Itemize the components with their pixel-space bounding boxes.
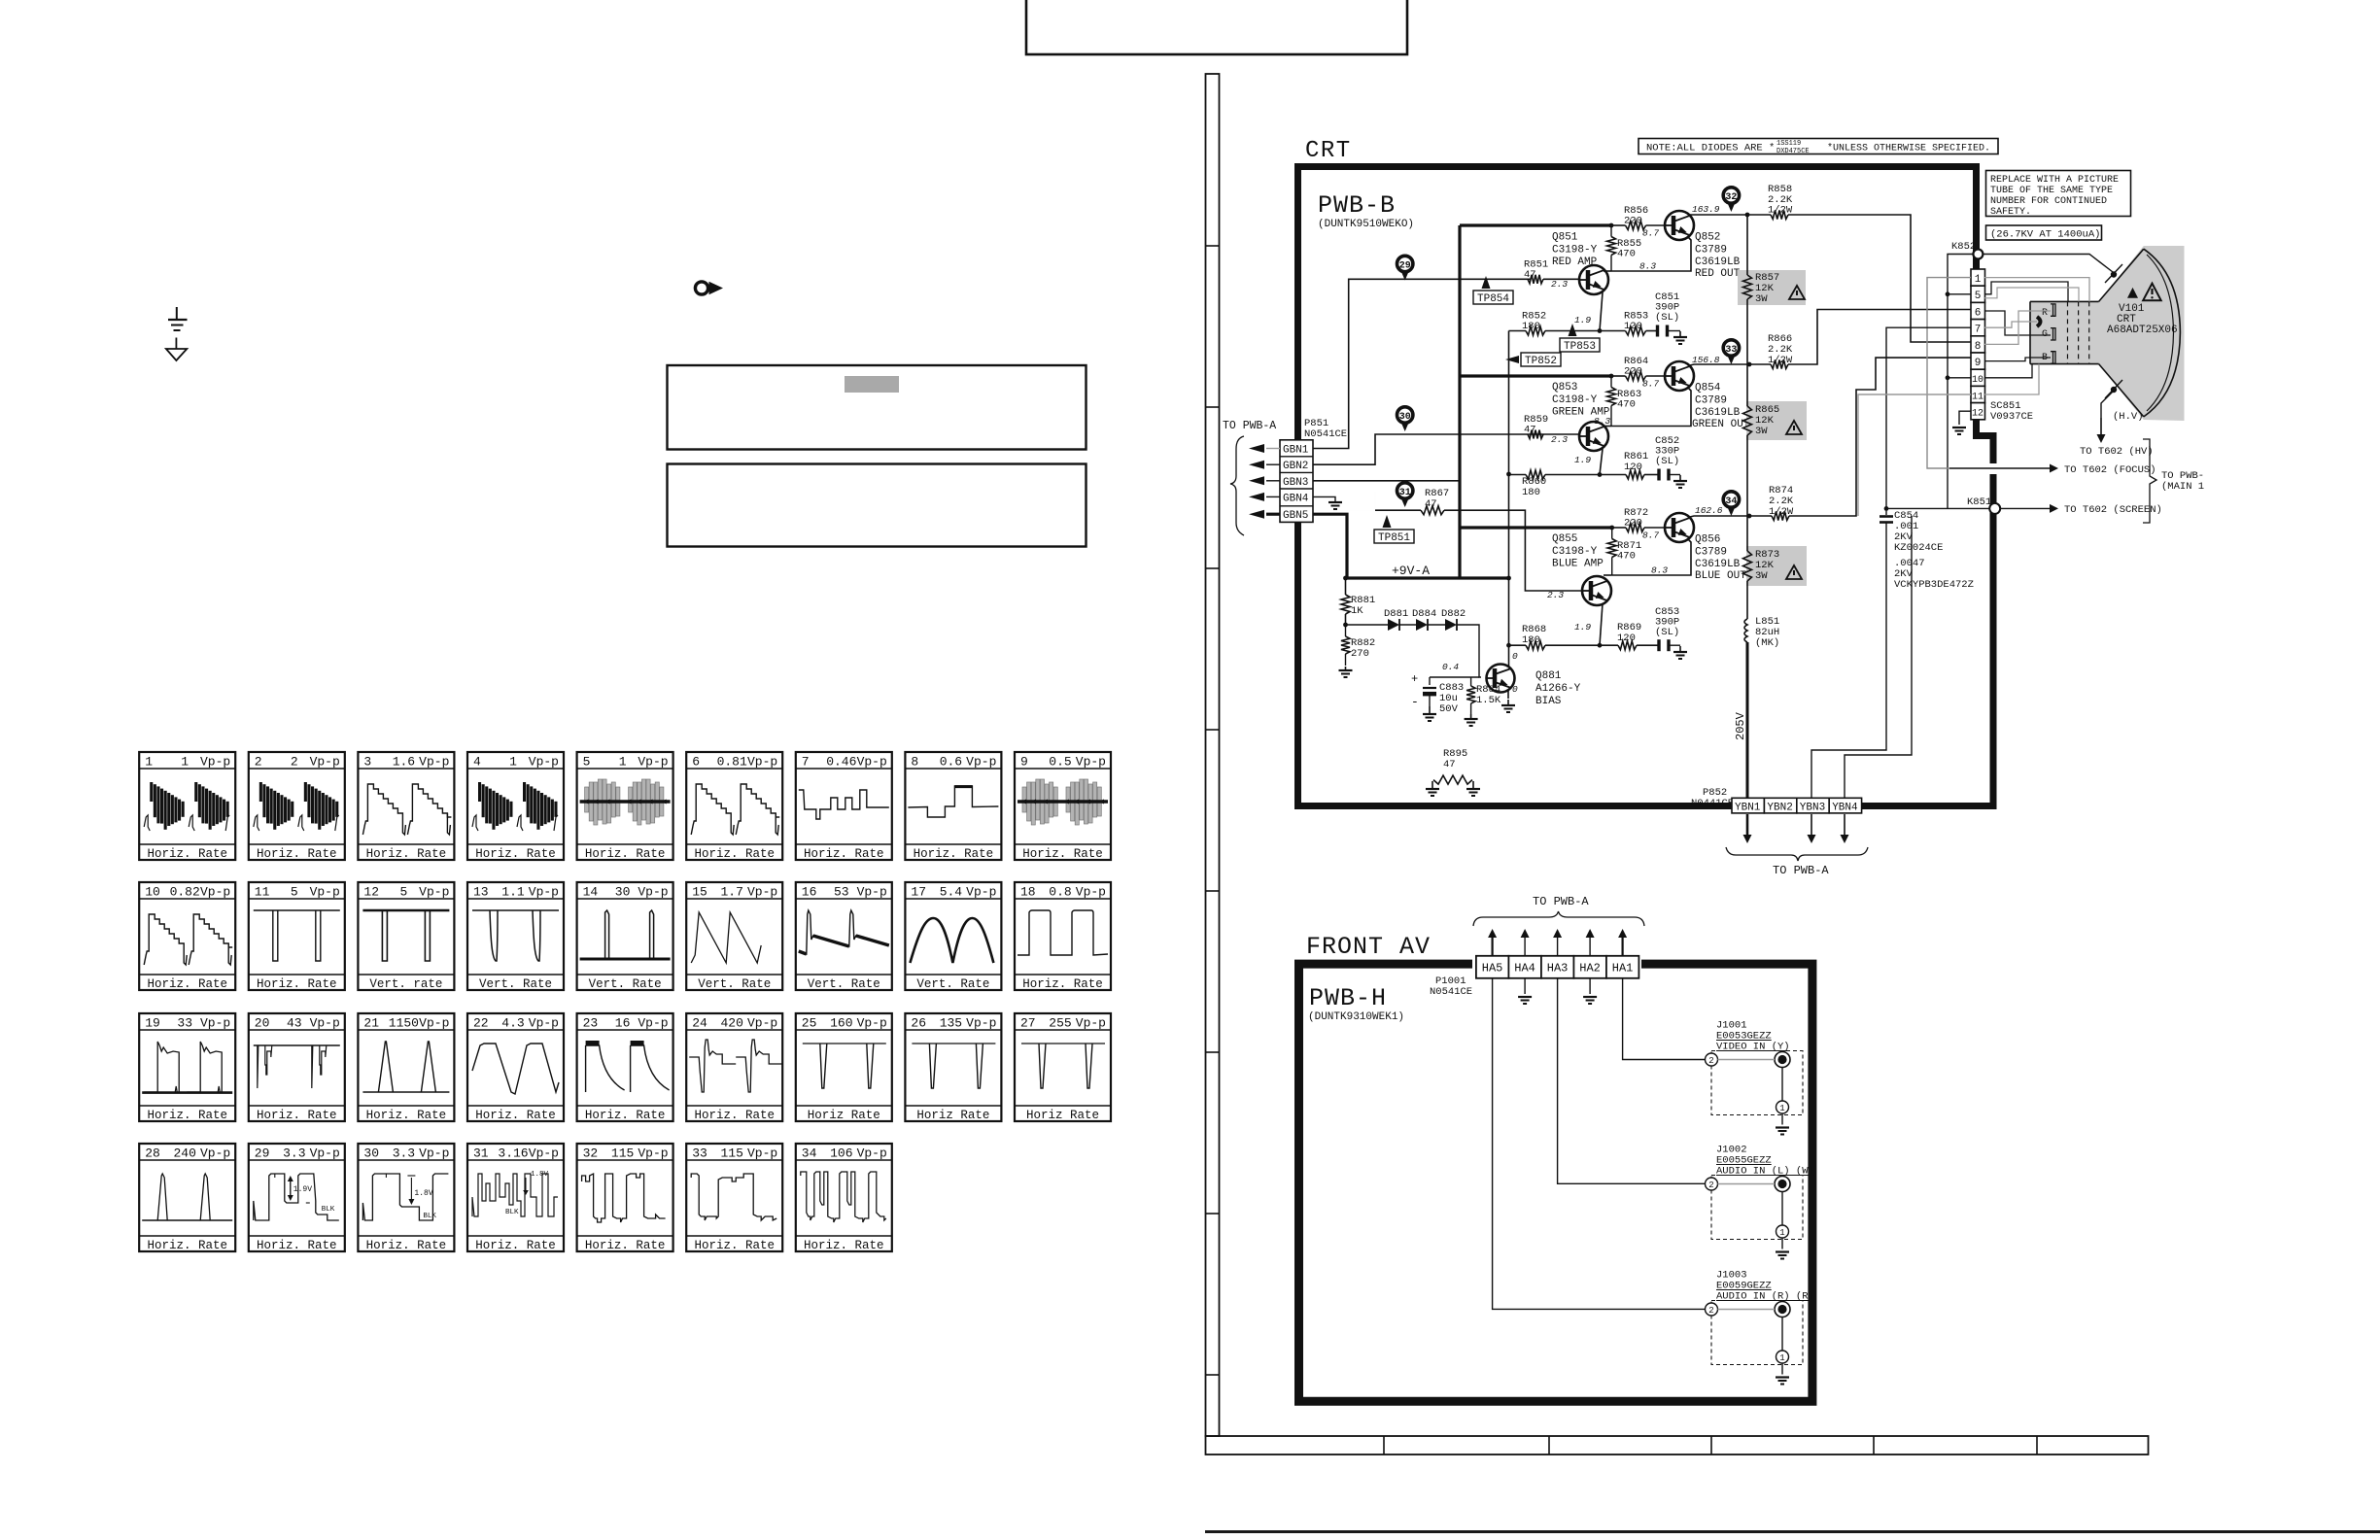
waveform 16 (53 Vp-p) — [796, 882, 892, 990]
wire GBN4 to PWB-A arrow — [1266, 496, 1280, 497]
junction dot R863 top — [1609, 374, 1614, 379]
svg-text:2.3: 2.3 — [1547, 590, 1564, 600]
svg-text:Q853: Q853 — [1552, 382, 1577, 394]
waveform 25 (160 Vp-p) — [796, 1013, 892, 1121]
svg-text:Vp-p: Vp-p — [529, 1146, 559, 1161]
svg-text:21: 21 — [363, 1016, 379, 1031]
svg-text:1/2W: 1/2W — [1769, 506, 1794, 518]
fold strip divider — [1206, 406, 1220, 408]
earth ground symbol (legend) — [176, 307, 178, 320]
svg-text:32: 32 — [583, 1146, 599, 1161]
connector HA5-HA1 — [1476, 956, 1509, 978]
wire K851 screen line — [1886, 507, 1989, 509]
diode D882 — [1428, 624, 1445, 626]
svg-text:5: 5 — [399, 885, 407, 900]
fold strip divider — [1710, 1436, 1712, 1454]
svg-text:Vert. Rate: Vert. Rate — [698, 977, 771, 991]
svg-text:1.7: 1.7 — [720, 885, 742, 900]
svg-text:3W: 3W — [1755, 426, 1768, 437]
waveform 28 (240 Vp-p) — [139, 1144, 235, 1251]
svg-text:11: 11 — [1972, 392, 1983, 402]
wire green feed line — [1460, 374, 1611, 377]
note box 1 (empty) — [668, 365, 1087, 450]
svg-text:Vp-p: Vp-p — [419, 1146, 449, 1161]
svg-text:Horiz. Rate: Horiz. Rate — [585, 1109, 666, 1122]
bottom border line — [1205, 1530, 2380, 1533]
svg-text:0.6: 0.6 — [940, 755, 962, 770]
svg-text:6: 6 — [692, 755, 700, 770]
wire YBN3 riser — [1811, 572, 1886, 798]
svg-text:Vp-p: Vp-p — [747, 755, 777, 770]
svg-text:24: 24 — [692, 1016, 707, 1031]
wire K852 to anode — [1983, 255, 2113, 273]
svg-text:KZ0024CE: KZ0024CE — [1894, 542, 1943, 554]
svg-text:12: 12 — [1972, 409, 1983, 420]
warning filled triangle (CRT) — [2127, 288, 2138, 298]
junction dot — [1506, 472, 1511, 477]
junction dot pin10 line — [1946, 375, 1950, 380]
svg-text:Horiz. Rate: Horiz. Rate — [147, 1109, 227, 1122]
svg-text:0.46: 0.46 — [826, 755, 856, 770]
resistor R865 12K 3W — [1743, 406, 1752, 435]
svg-text:(DUNTK9310WEK1): (DUNTK9310WEK1) — [1308, 1011, 1404, 1023]
svg-text:K851: K851 — [1967, 496, 1991, 508]
svg-text:Q852: Q852 — [1695, 232, 1720, 244]
waveform 27 (255 Vp-p) — [1015, 1013, 1111, 1121]
wire red emitter node — [1611, 236, 1691, 271]
svg-text:C3619LB: C3619LB — [1695, 407, 1741, 419]
svg-text:2: 2 — [1708, 1181, 1713, 1190]
resistor R852 — [1526, 326, 1545, 335]
svg-text:47: 47 — [1524, 269, 1536, 281]
svg-text:9: 9 — [1975, 358, 1982, 369]
resistor R856 — [1626, 222, 1646, 230]
jack J1002 AUDIO IN (L) — [1711, 1176, 1803, 1240]
svg-text:470: 470 — [1617, 249, 1636, 260]
fold strip divider — [2036, 1436, 2038, 1454]
svg-text:Vp-p: Vp-p — [966, 885, 996, 900]
warning triangle with exclamation (CRT) — [2143, 284, 2161, 301]
wire Q853 emitter — [1600, 449, 1603, 475]
svg-text:0.5: 0.5 — [1049, 755, 1071, 770]
svg-text:Vp-p: Vp-p — [638, 755, 668, 770]
svg-text:12: 12 — [363, 885, 379, 900]
box 26.7KV AT 1400uA — [1986, 225, 2102, 240]
svg-text:HA2: HA2 — [1579, 962, 1601, 975]
svg-text:3.16: 3.16 — [498, 1146, 528, 1161]
svg-text:1K: 1K — [1351, 605, 1363, 617]
waveform 2 (2 Vp-p) — [249, 752, 345, 860]
arrow YBN3 down — [1811, 814, 1812, 835]
svg-text:Horiz. Rate: Horiz. Rate — [694, 847, 775, 861]
svg-text:GREEN OUT: GREEN OUT — [1692, 419, 1750, 430]
svg-text:C3198-Y: C3198-Y — [1552, 394, 1598, 406]
svg-text:47: 47 — [1425, 498, 1437, 510]
svg-text:(SL): (SL) — [1655, 627, 1679, 638]
svg-text:Horiz. Rate: Horiz. Rate — [257, 847, 337, 861]
ground left of R895 — [1431, 781, 1433, 789]
svg-text:NOTE:ALL DIODES ARE *: NOTE:ALL DIODES ARE * — [1646, 143, 1775, 154]
arrow YBN1 down — [1746, 814, 1749, 835]
svg-text:30: 30 — [363, 1146, 379, 1161]
waveform 17 (5.4 Vp-p) — [905, 882, 1001, 990]
svg-text:FRONT AV: FRONT AV — [1306, 933, 1431, 961]
svg-text:115: 115 — [611, 1146, 634, 1161]
svg-text:30: 30 — [1399, 412, 1411, 423]
pin strip K852 pins — [1971, 269, 1985, 286]
svg-text:Horiz. Rate: Horiz. Rate — [585, 847, 666, 861]
svg-text:180: 180 — [1522, 634, 1540, 646]
svg-text:33: 33 — [1725, 345, 1737, 356]
wire GBN4 to ground — [1313, 496, 1335, 502]
warning triangle R873 — [1786, 565, 1802, 579]
title block box (top) — [1026, 0, 1407, 54]
CRT neck left edge — [2029, 301, 2031, 363]
ground below C883 — [1429, 706, 1431, 714]
capacitor C852 330P (SL) — [1657, 469, 1660, 481]
brace TO PWB-A (front av) — [1473, 911, 1644, 926]
wire HA3 to J1002 — [1558, 978, 1706, 1184]
svg-text:Vp-p: Vp-p — [200, 885, 230, 900]
svg-text:470: 470 — [1617, 399, 1636, 411]
svg-text:(H.V): (H.V) — [2113, 411, 2144, 423]
svg-text:1.9V: 1.9V — [293, 1185, 312, 1194]
svg-text:1: 1 — [1779, 1104, 1784, 1113]
svg-text:CRT: CRT — [1305, 138, 1352, 164]
balloon 33 — [1723, 340, 1739, 356]
waveform 22 (4.3 Vp-p) — [467, 1013, 564, 1121]
svg-text:BLUE AMP: BLUE AMP — [1552, 559, 1604, 570]
transistor Q856 (C3789 BLUE OUT) — [1665, 513, 1694, 542]
resistor R882 270 — [1341, 636, 1350, 654]
svg-text:115: 115 — [720, 1146, 742, 1161]
waveform 26 (135 Vp-p) — [905, 1013, 1001, 1121]
svg-text:180: 180 — [1522, 321, 1540, 332]
svg-text:C3198-Y: C3198-Y — [1552, 546, 1598, 558]
svg-text:C3619LB: C3619LB — [1695, 257, 1741, 268]
svg-text:2: 2 — [291, 755, 298, 770]
svg-text:47: 47 — [1524, 425, 1536, 436]
svg-text:11: 11 — [255, 885, 270, 900]
junction dot — [1506, 576, 1511, 581]
transistor Q852 (C3789 RED OUT) — [1665, 211, 1694, 240]
svg-text:D881: D881 — [1384, 608, 1408, 620]
svg-text:Vp-p: Vp-p — [747, 1016, 777, 1031]
svg-text:29: 29 — [255, 1146, 270, 1161]
junction dot pin5 line — [1946, 291, 1950, 296]
wire GBN2 to PWB-A arrow — [1266, 463, 1280, 465]
svg-text:30: 30 — [615, 885, 631, 900]
svg-text:7: 7 — [1975, 325, 1982, 336]
svg-text:TP851: TP851 — [1378, 532, 1410, 544]
svg-text:20: 20 — [255, 1016, 270, 1031]
svg-text:Horiz Rate: Horiz Rate — [916, 1109, 989, 1122]
ground below R884 — [1470, 714, 1472, 719]
junction dot blue collector — [1747, 514, 1752, 519]
svg-text:TO T602 (FOCUS): TO T602 (FOCUS) — [2064, 464, 2156, 476]
transistor Q855 (C3198-Y BLUE AMP) — [1582, 576, 1611, 605]
waveform 7 (0.46 Vp-p) — [796, 752, 892, 860]
svg-text:8: 8 — [1975, 341, 1982, 353]
arrow HV down — [2100, 418, 2102, 434]
svg-text:Vp-p: Vp-p — [200, 755, 230, 770]
svg-text:(SL): (SL) — [1655, 456, 1679, 467]
svg-text:1.9: 1.9 — [1574, 315, 1591, 325]
pin GBN4 — [1280, 488, 1313, 490]
svg-text:SAFETY.: SAFETY. — [1990, 207, 2031, 218]
svg-text:TP854: TP854 — [1477, 293, 1509, 305]
svg-text:28: 28 — [145, 1146, 160, 1161]
svg-text:Vp-p: Vp-p — [857, 1146, 887, 1161]
svg-text:220: 220 — [1624, 366, 1642, 378]
resistor R869 — [1618, 641, 1637, 650]
svg-text:240: 240 — [173, 1146, 195, 1161]
vertical fold strip — [1206, 74, 1220, 1436]
waveform 18 (0.8 Vp-p) — [1015, 882, 1111, 990]
wire C883 top to base wire — [1430, 676, 1479, 678]
svg-text:RED OUT: RED OUT — [1695, 268, 1741, 280]
fold strip divider — [1206, 1051, 1220, 1053]
svg-text:Horiz. Rate: Horiz. Rate — [147, 977, 227, 991]
wire K852 branch down — [1948, 255, 1973, 509]
brace TO PWB-(MAIN) — [2143, 439, 2156, 523]
svg-text:Vp-p: Vp-p — [310, 1016, 340, 1031]
wire +9V-A bus — [1347, 576, 1509, 579]
PWB-B right border jog piece — [1977, 420, 1994, 463]
waveform 12 (5 Vp-p) — [358, 882, 454, 990]
resistor R857 12K 3W — [1743, 275, 1752, 299]
svg-text:1: 1 — [1779, 1228, 1784, 1238]
svg-text:C3789: C3789 — [1695, 395, 1727, 407]
junction dot R871 top — [1609, 526, 1614, 530]
svg-text:7: 7 — [802, 755, 810, 770]
wire blue collector to pin9 — [1690, 516, 1772, 517]
svg-text:Q851: Q851 — [1552, 232, 1578, 244]
resistor R874 — [1772, 512, 1789, 521]
svg-text:Vert. rate: Vert. rate — [369, 977, 442, 991]
svg-text:YBN1: YBN1 — [1735, 803, 1761, 814]
wire Q881 collector — [1508, 645, 1510, 667]
svg-text:+: + — [1411, 672, 1418, 686]
fold strip divider — [1873, 1436, 1875, 1454]
transistor Q854 (C3789 GREEN OUT) — [1665, 361, 1694, 391]
svg-text:10: 10 — [1972, 375, 1983, 386]
svg-text:Vp-p: Vp-p — [419, 755, 449, 770]
capacitor C851 390P (SL) — [1656, 325, 1659, 337]
wire pin1 (gray) to focus loop — [1927, 278, 1971, 468]
svg-text:Vert. Rate: Vert. Rate — [479, 977, 552, 991]
svg-text:Horiz. Rate: Horiz. Rate — [257, 1109, 337, 1122]
svg-text:8.7: 8.7 — [1642, 228, 1659, 239]
wire pin10 to K852 line — [1948, 377, 1971, 379]
waveform 9 (0.5 Vp-p) — [1015, 752, 1111, 860]
test point TP851 — [1374, 530, 1414, 543]
anode contact dot — [2111, 271, 2117, 277]
CRT funnel inner arc — [2147, 255, 2174, 411]
svg-text:HA4: HA4 — [1514, 962, 1535, 975]
waveform 14 (30 Vp-p) — [577, 882, 673, 990]
waveform 15 (1.7 Vp-p) — [686, 882, 782, 990]
svg-text:120: 120 — [1617, 633, 1636, 644]
svg-text:TUBE OF THE SAME TYPE: TUBE OF THE SAME TYPE — [1990, 186, 2113, 196]
svg-text:160: 160 — [830, 1016, 852, 1031]
resistor R873 12K 3W — [1743, 551, 1752, 581]
junction dot diode node — [1343, 623, 1348, 628]
svg-text:1.1: 1.1 — [501, 885, 525, 900]
svg-text:C3789: C3789 — [1695, 245, 1727, 257]
svg-text:15: 15 — [692, 885, 707, 900]
svg-text:Q881: Q881 — [1535, 670, 1562, 682]
svg-text:163.9: 163.9 — [1692, 204, 1720, 215]
wire GBN5 (thick) to +9V-A corner — [1313, 514, 1347, 578]
waveform 4 (1 Vp-p) — [467, 752, 564, 860]
svg-text:1: 1 — [1975, 274, 1982, 286]
fold strip divider — [1206, 890, 1220, 892]
svg-text:1/2W: 1/2W — [1768, 355, 1793, 366]
arrow TO T602 SCREEN — [2000, 507, 2050, 509]
transistor Q853 (C3198-Y GREEN AMP) — [1579, 422, 1608, 451]
brace TO PWB-A bottom — [1726, 847, 1868, 861]
pin GBN2 — [1280, 456, 1313, 458]
svg-text:Vp-p: Vp-p — [1076, 1016, 1106, 1031]
note box: all diodes — [1638, 139, 1998, 154]
wire green base line — [1527, 433, 1579, 435]
svg-text:N0541CE: N0541CE — [1304, 428, 1347, 440]
svg-text:D884: D884 — [1412, 608, 1436, 620]
svg-text:2: 2 — [1708, 1056, 1713, 1066]
fold strip divider — [1206, 567, 1220, 569]
transistor Q851 (C3198-Y RED AMP) — [1543, 278, 1579, 280]
balloon 34 — [1723, 492, 1739, 507]
svg-text:1.5K: 1.5K — [1476, 695, 1501, 706]
svg-text:1.9: 1.9 — [1574, 455, 1591, 465]
svg-text:Vp-p: Vp-p — [747, 1146, 777, 1161]
adjustment point icon (circle with arrow) — [695, 282, 707, 294]
resistor R863 (feedback) — [1607, 388, 1616, 406]
heater symbol — [2037, 317, 2041, 326]
wire HA5 to J1003 — [1493, 978, 1706, 1310]
svg-text:1/2W: 1/2W — [1768, 205, 1793, 217]
svg-text:Vp-p: Vp-p — [1076, 755, 1106, 770]
svg-text:Horiz. Rate: Horiz. Rate — [475, 1109, 556, 1122]
svg-text:22: 22 — [473, 1016, 489, 1031]
svg-text:REPLACE WITH A PICTURE: REPLACE WITH A PICTURE — [1990, 175, 2119, 186]
svg-text:0.82: 0.82 — [170, 885, 200, 900]
svg-text:Horiz Rate: Horiz Rate — [1026, 1109, 1099, 1122]
svg-text:HA5: HA5 — [1482, 962, 1503, 975]
svg-text:43: 43 — [287, 1016, 302, 1031]
svg-text:Horiz. Rate: Horiz. Rate — [694, 1239, 775, 1252]
waveform 23 (16 Vp-p) — [577, 1013, 673, 1121]
fold strip divider — [1206, 1374, 1220, 1376]
junction dot Q851 emitter — [1598, 328, 1603, 333]
waveform 8 (0.6 Vp-p) — [905, 752, 1001, 860]
svg-text:YBN3: YBN3 — [1800, 803, 1825, 814]
diode D884 — [1399, 624, 1416, 626]
svg-text:120: 120 — [1624, 321, 1642, 332]
svg-text:Vp-p: Vp-p — [310, 885, 340, 900]
gray highlight mark — [845, 376, 899, 393]
svg-text:A68ADT25X06: A68ADT25X06 — [2107, 325, 2178, 336]
waveform 21 (1150 Vp-p) — [358, 1013, 454, 1121]
ground after C852 — [1668, 474, 1680, 476]
svg-text:YBN2: YBN2 — [1767, 803, 1792, 814]
svg-text:Horiz. Rate: Horiz. Rate — [914, 847, 994, 861]
svg-text:Horiz. Rate: Horiz. Rate — [475, 847, 556, 861]
wire GBN3 to bus — [1313, 480, 1460, 482]
svg-text:GBN5: GBN5 — [1283, 510, 1308, 522]
resistor R872 — [1626, 524, 1644, 532]
test point TP854 — [1473, 291, 1513, 304]
resistor R858 — [1771, 211, 1788, 220]
svg-text:180: 180 — [1522, 487, 1540, 498]
svg-text:33: 33 — [177, 1016, 192, 1031]
svg-text:(SL): (SL) — [1655, 312, 1679, 324]
svg-text:Horiz. Rate: Horiz. Rate — [366, 1239, 447, 1252]
waveform 24 (420 Vp-p) — [686, 1013, 782, 1121]
svg-text:32: 32 — [1725, 192, 1737, 203]
svg-text:3: 3 — [363, 755, 371, 770]
wire green emitter line — [1509, 474, 1527, 476]
svg-text:Vp-p: Vp-p — [419, 1016, 449, 1031]
junction dot Q853 emitter — [1598, 472, 1603, 477]
waveform 20 (43 Vp-p) — [249, 1013, 345, 1121]
wire 205V rail — [1746, 215, 1748, 275]
CRT funnel body (gray) — [2030, 246, 2185, 421]
svg-text:Vert. Rate: Vert. Rate — [808, 977, 880, 991]
svg-text:NUMBER FOR CONTINUED: NUMBER FOR CONTINUED — [1990, 196, 2107, 207]
svg-text:C3198-Y: C3198-Y — [1552, 245, 1598, 257]
svg-text:Vp-p: Vp-p — [310, 755, 340, 770]
svg-text:Vp-p: Vp-p — [529, 1016, 559, 1031]
svg-text:6: 6 — [1975, 307, 1982, 319]
junction dot R855 top — [1609, 223, 1614, 228]
box REPLACE WITH A PICTURE TUBE — [1986, 171, 2131, 217]
svg-text:1.8V: 1.8V — [531, 1171, 549, 1179]
svg-text:0.8: 0.8 — [1049, 885, 1071, 900]
svg-text:Horiz. Rate: Horiz. Rate — [694, 1109, 775, 1122]
svg-text:25: 25 — [802, 1016, 817, 1031]
svg-text:(26.7KV AT 1400uA): (26.7KV AT 1400uA) — [1990, 229, 2100, 241]
svg-text:31: 31 — [473, 1146, 489, 1161]
svg-text:GBN4: GBN4 — [1283, 493, 1309, 504]
wire Q851 emitter — [1600, 292, 1603, 331]
resistor R860 — [1526, 470, 1545, 479]
svg-text:13: 13 — [473, 885, 489, 900]
svg-text:4.3: 4.3 — [501, 1016, 524, 1031]
wire GBN1 to PWB-A arrow — [1266, 448, 1280, 450]
arrows HA to PWB-A — [1491, 938, 1493, 956]
svg-text:DXD475CE: DXD475CE — [1776, 148, 1810, 155]
svg-text:V0937CE: V0937CE — [1990, 411, 2033, 423]
svg-text:+9V-A: +9V-A — [1392, 564, 1430, 578]
svg-text:135: 135 — [940, 1016, 962, 1031]
svg-text:Horiz. Rate: Horiz. Rate — [366, 847, 447, 861]
svg-text:C3789: C3789 — [1695, 547, 1727, 559]
svg-text:120: 120 — [1624, 462, 1642, 473]
resistor R884 1.5K — [1466, 686, 1475, 703]
svg-text:1150: 1150 — [389, 1016, 419, 1031]
waveform 6 (0.81 Vp-p) — [686, 752, 782, 860]
svg-text:9: 9 — [1020, 755, 1028, 770]
svg-text:Horiz. Rate: Horiz. Rate — [475, 1239, 556, 1252]
svg-text:Vp-p: Vp-p — [857, 755, 887, 770]
wire blue emitter line — [1509, 644, 1527, 646]
svg-text:3W: 3W — [1755, 570, 1768, 582]
svg-text:-: - — [1411, 695, 1419, 709]
svg-text:8: 8 — [911, 755, 918, 770]
svg-text:Vp-p: Vp-p — [638, 1016, 668, 1031]
